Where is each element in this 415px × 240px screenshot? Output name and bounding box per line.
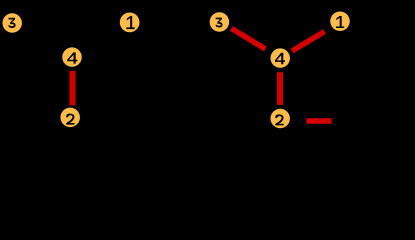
legend red dash bbox=[306, 118, 331, 124]
node 3 (right) bbox=[210, 12, 230, 32]
node 2 (left) bbox=[60, 108, 80, 128]
wire: red edge 4-2 (right graph) bbox=[277, 72, 283, 105]
node 3 (left) bbox=[2, 13, 22, 33]
node 4 (right) bbox=[270, 48, 290, 68]
node 1 (right) bbox=[330, 11, 350, 31]
node 4 (left) bbox=[62, 47, 82, 67]
wire: red edge 3-4 (right graph) bbox=[232, 29, 266, 50]
node 1 (left) bbox=[120, 13, 140, 33]
wire: red edge 1-4 (right graph) bbox=[292, 32, 325, 52]
node 2 (right) bbox=[270, 109, 290, 129]
wire: red edge 4-2 (left graph) bbox=[70, 71, 76, 105]
